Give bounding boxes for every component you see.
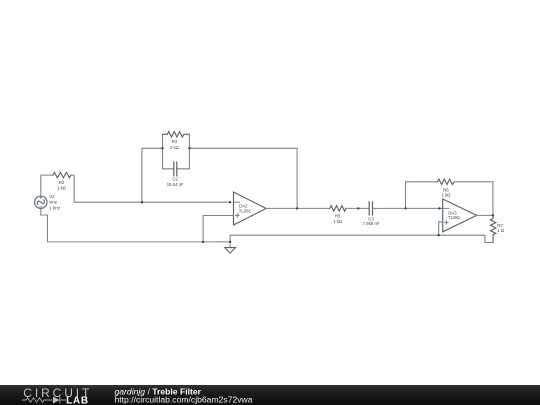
svg-text:1 kΩ: 1 kΩ [441, 193, 451, 198]
wire OA3 output [477, 214, 493, 216]
label R3 [170, 139, 180, 150]
svg-text:sine: sine [49, 200, 57, 205]
label R6 [441, 188, 451, 198]
svg-text:LAB: LAB [66, 395, 89, 405]
logo resistor zigzag and diode [22, 397, 66, 404]
svg-text:V2: V2 [49, 194, 55, 199]
wire V2 bottom to ground rail [41, 209, 230, 242]
wire R5 to C3 [346, 207, 369, 209]
junction node R2/R3C2/OA2 minus [141, 201, 143, 203]
svg-text:15.54 nF: 15.54 nF [167, 182, 184, 187]
op-amp OA3 [443, 199, 477, 232]
svg-text:R3: R3 [172, 139, 178, 144]
svg-text:R5: R5 [335, 214, 341, 219]
junction OA3 plus node [438, 234, 440, 236]
resistor R2 [53, 172, 71, 177]
voltage source V2 [35, 196, 47, 208]
junction OA3 minus pin [438, 207, 440, 209]
label C3 [363, 217, 380, 226]
wire feedback left vertical [406, 182, 438, 209]
junction R3C2 right node [188, 147, 190, 149]
svg-text:1 kHz: 1 kHz [49, 206, 60, 211]
wire OA2 output rail [266, 207, 330, 209]
wire OA2 plus input [203, 216, 233, 242]
capacitor C3 [369, 202, 372, 215]
wire node A up to feedback block [142, 148, 163, 202]
wire C3 to OA3 minus [373, 207, 443, 209]
junction OA2 minus pin [229, 201, 231, 203]
junction OA3 output node [492, 214, 494, 216]
svg-text:TL081: TL081 [239, 208, 252, 213]
junction OA2 plus to ground rail [202, 241, 204, 243]
wire OA3 plus input [439, 222, 443, 235]
ground [225, 242, 236, 253]
junction R3C2 left node [161, 147, 163, 149]
junction OA2 output node [296, 207, 298, 209]
svg-text:1 Ω: 1 Ω [497, 228, 505, 233]
label R7 [497, 223, 505, 233]
svg-text:1 kΩ: 1 kΩ [333, 219, 343, 224]
label R5 [333, 214, 343, 225]
capacitor C2 [163, 162, 190, 176]
resistor R6 [438, 179, 455, 184]
junction ground node [229, 241, 231, 243]
resistor R7 [490, 215, 495, 242]
wire block output down to OA2 output rail [189, 148, 297, 208]
label R2 [57, 180, 67, 190]
svg-text:7.958 nF: 7.958 nF [363, 221, 380, 226]
svg-text:TL081: TL081 [448, 215, 461, 220]
junction R5/C3 node [357, 207, 359, 209]
wire block right vertical [188, 134, 190, 169]
op-amp OA2 [234, 192, 267, 225]
resistor R5 [330, 206, 346, 211]
label C2 [167, 177, 184, 187]
junction R6 feedback node [404, 207, 406, 209]
resistor R3 [163, 132, 190, 137]
wire block left vertical [162, 134, 164, 169]
label OA3 [448, 210, 461, 220]
wire V2 top lead [41, 175, 53, 196]
svg-text:R2: R2 [59, 180, 65, 185]
svg-text:http://circuitlab.com/cjb6am2s: http://circuitlab.com/cjb6am2s72vwa [115, 395, 253, 405]
svg-text:2 kΩ: 2 kΩ [170, 145, 180, 150]
label V2 [49, 194, 60, 211]
wire R2 to minus rail [71, 175, 230, 202]
wire lower return rail [230, 235, 493, 242]
footer bar [0, 385, 540, 405]
label OA2 [239, 204, 252, 214]
svg-text:1 kΩ: 1 kΩ [57, 186, 67, 191]
wire R6 to output node [454, 182, 493, 216]
